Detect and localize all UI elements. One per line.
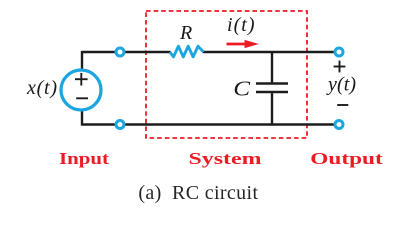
svg-text:C: C [233, 77, 250, 101]
svg-text:Input: Input [59, 149, 109, 168]
svg-text:x(t): x(t) [26, 77, 57, 99]
svg-text:R: R [179, 22, 192, 44]
svg-text:System: System [189, 149, 262, 168]
svg-text:(a) RC circuit: (a) RC circuit [138, 182, 258, 204]
svg-text:Output: Output [310, 149, 383, 168]
svg-text:y(t): y(t) [326, 74, 356, 96]
svg-text:i(t): i(t) [227, 14, 255, 36]
